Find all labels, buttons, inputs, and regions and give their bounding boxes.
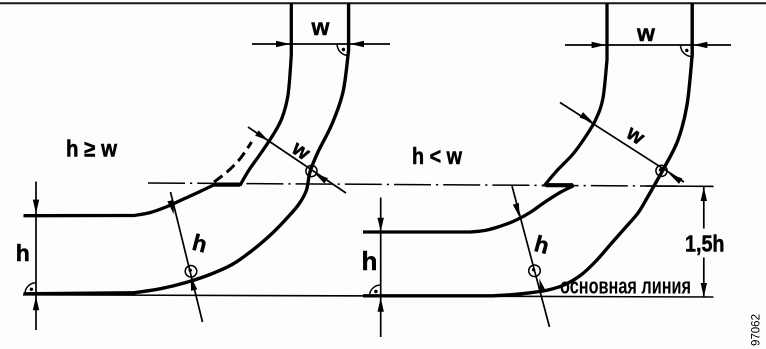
svg-text:основная линия: основная линия: [560, 274, 691, 299]
svg-text:h: h: [362, 246, 378, 276]
svg-text:w: w: [636, 20, 655, 46]
svg-text:h ≥ w: h ≥ w: [66, 136, 117, 162]
svg-text:w: w: [311, 14, 330, 40]
svg-text:97062: 97062: [751, 314, 763, 346]
svg-text:h: h: [16, 240, 30, 266]
svg-text:h < w: h < w: [412, 143, 462, 169]
svg-text:1,5h: 1,5h: [685, 231, 725, 257]
